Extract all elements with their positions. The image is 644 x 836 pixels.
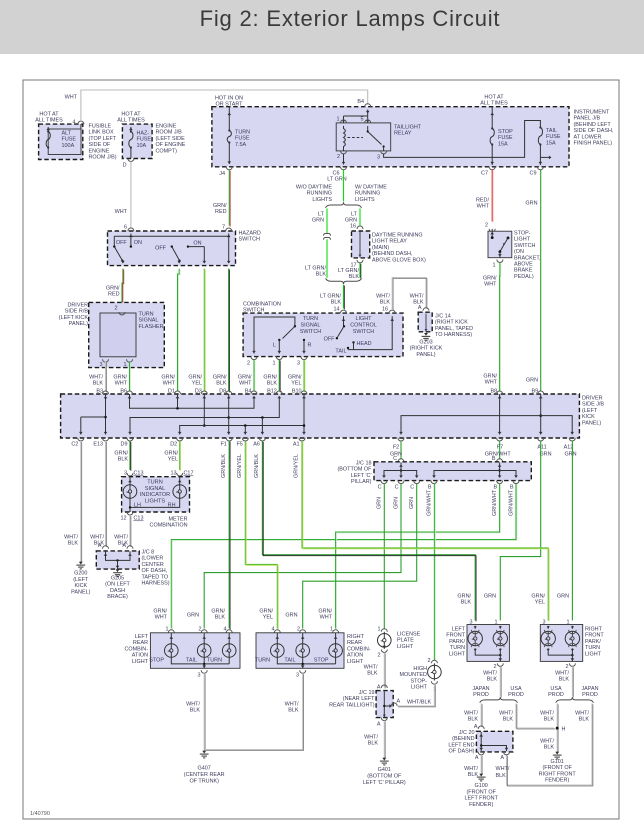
svg-text:USA: USA xyxy=(510,686,522,692)
svg-text:FLASHER: FLASHER xyxy=(139,324,164,330)
relay coil xyxy=(344,126,346,151)
svg-text:BLK: BLK xyxy=(367,671,378,677)
svg-text:YEL: YEL xyxy=(291,381,301,387)
svg-text:STOP: STOP xyxy=(149,658,164,664)
svg-text:TURN: TURN xyxy=(303,316,318,322)
svg-text:OF TRUNK): OF TRUNK) xyxy=(189,778,219,784)
HAZ fuse element xyxy=(129,128,133,131)
pin D connector (haz fuse output) xyxy=(128,159,134,162)
TAIL fuse 15A xyxy=(539,126,541,128)
svg-text:G203: G203 xyxy=(419,340,432,346)
svg-text:PANEL): PANEL) xyxy=(416,352,435,358)
junction connector J/C 19 xyxy=(381,685,387,688)
svg-text:WHT/: WHT/ xyxy=(89,375,103,381)
svg-text:BLK: BLK xyxy=(544,745,555,751)
flasher inner unit xyxy=(100,313,136,357)
svg-text:WHT/: WHT/ xyxy=(496,766,510,772)
svg-text:GRN/: GRN/ xyxy=(213,375,227,381)
svg-text:OF DASH): OF DASH) xyxy=(449,749,475,755)
svg-text:LIGHT: LIGHT xyxy=(132,659,149,665)
svg-text:GRN/: GRN/ xyxy=(153,609,167,615)
svg-text:WHT: WHT xyxy=(163,381,176,387)
right rear internal common xyxy=(277,657,335,664)
svg-text:WHT/: WHT/ xyxy=(575,711,589,717)
svg-text:R: R xyxy=(308,343,312,349)
J/C 18 internal C bus xyxy=(400,463,402,478)
svg-text:A: A xyxy=(377,722,381,728)
svg-text:TO HARNESS): TO HARNESS) xyxy=(435,332,472,338)
svg-text:GRN/BLK: GRN/BLK xyxy=(221,454,227,478)
svg-text:LT GRN/: LT GRN/ xyxy=(320,294,341,300)
svg-text:C17: C17 xyxy=(184,471,194,477)
svg-text:ON: ON xyxy=(193,241,201,247)
svg-text:BLK: BLK xyxy=(93,381,104,387)
svg-text:GRN/: GRN/ xyxy=(238,375,252,381)
title bar xyxy=(0,0,644,54)
svg-text:WHT: WHT xyxy=(115,209,128,215)
long wire GRN/WHT J/C18 B3 to left rear stop xyxy=(171,484,516,629)
svg-text:LIGHT: LIGHT xyxy=(347,659,364,665)
svg-text:J4: J4 xyxy=(219,171,225,177)
svg-text:RIGHT: RIGHT xyxy=(347,634,365,640)
svg-text:HAZ-: HAZ- xyxy=(137,131,150,137)
svg-text:METER: METER xyxy=(168,516,187,522)
svg-text:TAIL: TAIL xyxy=(546,128,557,134)
svg-text:BLK: BLK xyxy=(68,541,79,547)
svg-text:GRN: GRN xyxy=(526,378,538,384)
svg-text:DASH: DASH xyxy=(110,588,125,594)
svg-text:HOT IN ON: HOT IN ON xyxy=(215,96,243,102)
svg-text:(FRONT OF: (FRONT OF xyxy=(542,765,572,771)
svg-text:SIDE R/B: SIDE R/B xyxy=(65,309,89,315)
relay pin3 wire to tail fuse xyxy=(384,121,541,158)
junction connector J/C 8 xyxy=(103,546,109,549)
svg-text:REAR: REAR xyxy=(133,640,148,646)
svg-text:TURN: TURN xyxy=(255,658,270,664)
svg-text:FENDER): FENDER) xyxy=(545,778,569,784)
long wire GRN J/C18 C3 to right rear tail xyxy=(303,484,417,629)
svg-text:INDICATOR: INDICATOR xyxy=(140,492,170,498)
relay pin 3 connector xyxy=(381,151,387,154)
svg-text:16: 16 xyxy=(350,224,356,230)
svg-text:LIGHT: LIGHT xyxy=(411,685,428,691)
svg-text:(LEFT: (LEFT xyxy=(73,577,89,583)
svg-text:FUSE: FUSE xyxy=(62,137,77,143)
svg-text:RIGHT: RIGHT xyxy=(585,627,603,633)
svg-text:ALT: ALT xyxy=(62,131,72,137)
svg-text:GRN: GRN xyxy=(539,452,551,458)
svg-text:DAYTIME RUNNING: DAYTIME RUNNING xyxy=(372,233,423,239)
svg-text:GRN/BLK: GRN/BLK xyxy=(254,454,260,478)
turn signal flasher outer box (driver side R/B) xyxy=(89,302,165,367)
relay pin 1 connector xyxy=(341,120,347,123)
svg-text:WHT/: WHT/ xyxy=(555,671,569,677)
svg-text:LICENSE: LICENSE xyxy=(397,632,421,638)
svg-text:1/40790: 1/40790 xyxy=(30,811,50,817)
svg-text:PROD: PROD xyxy=(582,692,598,698)
wire WHT/BLK right front pin2 to production split xyxy=(571,666,573,696)
svg-text:HEAD: HEAD xyxy=(357,341,372,347)
svg-text:ROOM J/B): ROOM J/B) xyxy=(89,155,117,161)
svg-text:RED: RED xyxy=(215,209,227,215)
svg-text:TURN: TURN xyxy=(585,645,600,651)
svg-text:BLK: BLK xyxy=(503,717,514,723)
daytime running light relay box xyxy=(357,226,363,229)
svg-text:WHT/: WHT/ xyxy=(464,766,478,772)
junction connector J/C 14 xyxy=(423,308,429,311)
svg-text:WHT: WHT xyxy=(65,95,78,101)
long wire GRN/YEL F5 to right rear turn xyxy=(245,441,277,629)
svg-text:LEFT: LEFT xyxy=(452,627,466,633)
svg-text:J/C 19: J/C 19 xyxy=(359,690,375,696)
svg-text:BLK: BLK xyxy=(190,708,201,714)
svg-text:BLK: BLK xyxy=(468,772,479,778)
svg-text:BLK: BLK xyxy=(316,272,327,278)
svg-text:F7: F7 xyxy=(497,445,503,451)
svg-text:AT LOWER: AT LOWER xyxy=(574,134,602,140)
ground G205 xyxy=(117,569,119,571)
long wire GRN J/C18 C1 to license plate light xyxy=(383,484,385,629)
svg-text:PARK/: PARK/ xyxy=(449,639,465,645)
svg-text:(LEFT KICK: (LEFT KICK xyxy=(59,315,89,321)
svg-text:WHT: WHT xyxy=(320,615,333,621)
svg-text:SWITCH: SWITCH xyxy=(514,243,536,249)
svg-text:BLK: BLK xyxy=(544,717,555,723)
J/C 18 internal B bus xyxy=(499,463,501,478)
svg-text:GRN/: GRN/ xyxy=(483,276,497,282)
svg-text:ATION: ATION xyxy=(132,653,148,659)
inline connector on left branch xyxy=(323,234,330,236)
long wire GRN A11 to left front park xyxy=(500,441,540,621)
svg-text:YEL: YEL xyxy=(535,600,545,606)
svg-text:A6: A6 xyxy=(253,442,260,448)
svg-text:C: C xyxy=(395,485,399,491)
wire relay pin2 down to C6 xyxy=(343,154,345,165)
svg-text:G101: G101 xyxy=(551,759,564,765)
long wire GRN/BLK F1 to left rear turn xyxy=(228,441,230,629)
svg-text:WHT/: WHT/ xyxy=(285,702,299,708)
band internal routing: B6-D1-B4 (GRN/WHT turn feed) xyxy=(130,394,255,408)
svg-text:GRN/: GRN/ xyxy=(213,203,227,209)
svg-text:WHT: WHT xyxy=(155,615,168,621)
wire GRN/BLK D9 down to meter pin 3 xyxy=(129,441,131,470)
svg-text:6: 6 xyxy=(124,225,127,231)
svg-text:LIGHT RELAY: LIGHT RELAY xyxy=(372,239,407,245)
svg-text:TAILLIGHT: TAILLIGHT xyxy=(394,125,422,131)
comb switch bottom pin connectors 2 1 3 xyxy=(251,357,257,360)
svg-text:1: 1 xyxy=(377,627,380,633)
svg-text:WHT/: WHT/ xyxy=(499,711,513,717)
svg-text:WHT/: WHT/ xyxy=(540,739,554,745)
svg-text:B8: B8 xyxy=(490,389,497,395)
svg-text:LT: LT xyxy=(351,212,358,218)
svg-text:GRN: GRN xyxy=(525,201,537,207)
svg-text:WHT/: WHT/ xyxy=(364,665,378,671)
meter internal common to pin 12 xyxy=(130,498,180,507)
svg-text:C9: C9 xyxy=(530,171,537,177)
left front bulbs (dual filament) xyxy=(474,626,476,629)
svg-text:BLK: BLK xyxy=(349,274,360,280)
svg-text:STOP-: STOP- xyxy=(410,678,427,684)
svg-text:RUNNING: RUNNING xyxy=(355,191,380,197)
merge brace xyxy=(326,278,362,284)
svg-text:PANEL): PANEL) xyxy=(69,321,88,327)
svg-text:GRN/: GRN/ xyxy=(164,451,178,457)
wire WHT/BLK J/C 19 down to G401 xyxy=(381,718,387,721)
svg-text:B: B xyxy=(493,485,497,491)
svg-text:BLK: BLK xyxy=(487,677,498,683)
svg-text:PROD: PROD xyxy=(548,692,564,698)
wire WHT from haz fuse pin D down to hazard switch pin 6 xyxy=(130,162,132,229)
svg-text:ALL TIMES: ALL TIMES xyxy=(35,118,63,124)
svg-text:(TOP LEFT: (TOP LEFT xyxy=(89,136,117,142)
svg-text:2: 2 xyxy=(485,223,488,229)
svg-text:D2: D2 xyxy=(170,442,177,448)
svg-text:TAIL: TAIL xyxy=(186,658,197,664)
flasher pin 3 connector xyxy=(103,359,109,362)
svg-text:MOUNTED: MOUNTED xyxy=(400,672,428,678)
svg-text:WHT/: WHT/ xyxy=(483,671,497,677)
svg-text:GRN/: GRN/ xyxy=(211,609,225,615)
svg-text:DRIVER: DRIVER xyxy=(582,396,603,402)
connector J4 (turn fuse output) xyxy=(226,167,232,170)
svg-text:3: 3 xyxy=(124,471,127,477)
svg-text:(BEHIND DASH,: (BEHIND DASH, xyxy=(372,251,413,257)
svg-text:10A: 10A xyxy=(137,143,147,149)
svg-text:(LEFT SIDE: (LEFT SIDE xyxy=(156,136,186,142)
svg-text:YEL: YEL xyxy=(263,615,273,621)
svg-text:7: 7 xyxy=(222,225,225,231)
svg-text:B4: B4 xyxy=(245,389,252,395)
svg-text:G100: G100 xyxy=(475,783,488,789)
svg-text:C7: C7 xyxy=(481,171,488,177)
wire WHT/BLK flasher pin3 down to B3 xyxy=(105,362,107,392)
svg-text:BLK: BLK xyxy=(579,717,590,723)
wire GRN F2 down to J/C 18 pin C xyxy=(400,441,402,460)
svg-text:LIGHT: LIGHT xyxy=(355,316,372,322)
svg-text:CENTER: CENTER xyxy=(142,562,164,568)
relay pin 2 connector xyxy=(341,151,347,154)
wire WHT/BLK C2 down to G200 xyxy=(80,441,82,562)
right rear bulbs TURN TAIL STOP xyxy=(271,644,285,658)
svg-text:A: A xyxy=(122,543,126,549)
svg-text:REAR TAILLIGHT): REAR TAILLIGHT) xyxy=(329,702,375,708)
svg-text:LEFT 'C': LEFT 'C' xyxy=(351,473,372,479)
svg-text:1: 1 xyxy=(123,362,126,368)
svg-text:2: 2 xyxy=(114,306,117,312)
svg-text:STOP: STOP xyxy=(314,658,329,664)
svg-text:WHT/: WHT/ xyxy=(186,702,200,708)
svg-text:C: C xyxy=(410,485,414,491)
band internal routing: B9 to A11 with F2/A12 branch (GRN tail feed) xyxy=(540,394,542,435)
band bottom pin connectors xyxy=(78,438,84,441)
svg-text:OFF: OFF xyxy=(324,337,336,343)
svg-text:SIDE OF DASH,: SIDE OF DASH, xyxy=(574,128,614,134)
svg-text:3: 3 xyxy=(197,673,200,679)
svg-text:HARNESS): HARNESS) xyxy=(142,581,170,587)
svg-text:12: 12 xyxy=(120,516,126,522)
svg-text:WHT/: WHT/ xyxy=(90,535,104,541)
svg-text:GRN/YEL: GRN/YEL xyxy=(294,454,300,478)
svg-text:G205: G205 xyxy=(111,576,124,582)
svg-text:A: A xyxy=(418,305,422,311)
wire WHT/BLK left front pin2 to production split xyxy=(499,666,501,696)
svg-text:LIGHTS: LIGHTS xyxy=(355,197,375,203)
svg-text:A1: A1 xyxy=(293,442,300,448)
wire WHT/BLK high mounted stoplight to J/C 19 pin A xyxy=(397,684,434,706)
J/C 18 bottom pin connectors xyxy=(381,481,387,484)
svg-text:H: H xyxy=(562,727,566,733)
svg-text:GRN: GRN xyxy=(285,613,297,619)
svg-text:13: 13 xyxy=(170,471,176,477)
svg-text:(ON: (ON xyxy=(514,249,524,255)
svg-text:RELAY: RELAY xyxy=(394,131,412,137)
svg-text:HAZARD: HAZARD xyxy=(239,231,261,237)
svg-text:BLK: BLK xyxy=(118,457,129,463)
svg-text:BLK: BLK xyxy=(368,741,379,747)
band internal routing: D8-F1 with D9/A6/B12 branch (GRN/BLK) xyxy=(228,394,230,435)
svg-text:BLK: BLK xyxy=(461,600,472,606)
svg-text:SWITCH: SWITCH xyxy=(239,237,261,243)
svg-text:W/ DAYTIME: W/ DAYTIME xyxy=(355,185,387,191)
svg-text:D: D xyxy=(123,163,127,169)
wire LT GRN/BLK relay pin17 down to merge xyxy=(359,263,361,278)
svg-text:STOP: STOP xyxy=(498,129,513,135)
svg-text:ABOVE: ABOVE xyxy=(514,262,533,268)
hazard pin 6 connector xyxy=(128,228,134,231)
wire LT GRN left branch (w/o DRL) xyxy=(326,208,328,233)
hazard pin 7 connector xyxy=(226,228,232,231)
svg-text:B: B xyxy=(510,485,514,491)
svg-text:GRN: GRN xyxy=(484,594,496,600)
svg-text:3: 3 xyxy=(296,673,299,679)
svg-text:LINK BOX: LINK BOX xyxy=(89,130,114,136)
svg-text:B3: B3 xyxy=(96,389,103,395)
svg-text:FINISH PANEL): FINISH PANEL) xyxy=(574,141,613,147)
TURN fuse 7.5A xyxy=(228,107,230,130)
svg-text:FUSE: FUSE xyxy=(546,134,561,140)
svg-text:OF DASH,: OF DASH, xyxy=(142,568,168,574)
svg-text:4: 4 xyxy=(72,120,75,126)
wire LT GRN right branch (w/ DRL) to daytime relay xyxy=(359,208,361,226)
ground G407 xyxy=(203,751,205,753)
svg-text:COMBIN-: COMBIN- xyxy=(347,646,371,652)
svg-text:SWITCH: SWITCH xyxy=(353,329,375,335)
svg-text:WHT: WHT xyxy=(484,282,497,288)
svg-text:WHT/: WHT/ xyxy=(540,711,554,717)
svg-text:16: 16 xyxy=(382,307,388,313)
wire GRN/WHT stop switch to B8 xyxy=(499,263,501,392)
svg-text:INSTRUMENT: INSTRUMENT xyxy=(574,110,610,116)
svg-text:PARK/: PARK/ xyxy=(585,639,601,645)
ALT fuse element xyxy=(46,128,50,131)
svg-text:ATION: ATION xyxy=(347,653,363,659)
svg-text:SIDE OF: SIDE OF xyxy=(89,142,111,148)
hazard right switch (turn feed) xyxy=(171,245,173,247)
svg-text:G200: G200 xyxy=(74,571,87,577)
wire RED/WHT from C7 down to stoplight switch pin 2 xyxy=(491,170,493,222)
svg-text:PROD: PROD xyxy=(508,692,524,698)
connector C9 xyxy=(537,167,543,170)
svg-text:GRN: GRN xyxy=(312,218,324,224)
wire WHT from fusible link pin 4 up and across to B4 xyxy=(81,90,368,121)
svg-text:GRN: GRN xyxy=(564,452,576,458)
branch arrow to other circuits from tail fuse output xyxy=(540,156,549,158)
svg-text:BRACE): BRACE) xyxy=(107,594,128,600)
svg-text:A11: A11 xyxy=(537,445,546,451)
svg-text:F2: F2 xyxy=(393,445,399,451)
svg-text:DRIVER: DRIVER xyxy=(67,303,88,309)
svg-text:WHT: WHT xyxy=(239,381,252,387)
svg-text:TAPED TO: TAPED TO xyxy=(142,574,169,580)
connector C7 xyxy=(489,167,495,170)
svg-text:TURN: TURN xyxy=(147,480,163,486)
svg-text:FRONT: FRONT xyxy=(446,633,465,639)
svg-text:GRN/: GRN/ xyxy=(113,375,127,381)
svg-text:ROOM J/B: ROOM J/B xyxy=(156,130,183,136)
high mounted stoplight bulb xyxy=(431,660,437,663)
svg-text:FUSE: FUSE xyxy=(498,135,513,141)
svg-text:YEL: YEL xyxy=(168,457,178,463)
svg-text:ALL TIMES: ALL TIMES xyxy=(117,118,145,124)
svg-text:BLK: BLK xyxy=(215,615,226,621)
svg-text:1: 1 xyxy=(336,117,339,123)
svg-text:RIGHT FRONT: RIGHT FRONT xyxy=(539,771,577,777)
svg-text:TURN: TURN xyxy=(139,312,154,318)
svg-text:C13: C13 xyxy=(134,516,144,522)
svg-text:GRN/WHT: GRN/WHT xyxy=(427,489,433,516)
svg-text:7.5A: 7.5A xyxy=(235,142,247,148)
long wire GRN J/C18 C2 to left rear tail xyxy=(204,484,401,629)
svg-text:GRN: GRN xyxy=(187,613,199,619)
svg-text:B: B xyxy=(428,485,432,491)
left rear internal common xyxy=(171,657,229,664)
left rear bulbs STOP TAIL TURN xyxy=(165,644,179,658)
svg-text:BLK: BLK xyxy=(288,708,299,714)
svg-text:GRN/: GRN/ xyxy=(106,286,120,292)
svg-text:SIGNAL: SIGNAL xyxy=(139,318,159,324)
fusible link box (ALT fuse) xyxy=(39,124,83,159)
right front bulbs (dual filament) xyxy=(547,626,549,629)
svg-text:GRN/: GRN/ xyxy=(188,375,202,381)
svg-text:3: 3 xyxy=(377,155,380,161)
svg-text:BLK: BLK xyxy=(267,381,278,387)
svg-text:YEL: YEL xyxy=(192,381,202,387)
svg-text:LT: LT xyxy=(318,212,325,218)
svg-text:GRN/: GRN/ xyxy=(259,609,273,615)
svg-text:LIGHT: LIGHT xyxy=(514,237,531,243)
svg-text:LIGHT: LIGHT xyxy=(397,644,414,650)
svg-text:LEFT END: LEFT END xyxy=(448,742,474,748)
svg-text:(ON LEFT: (ON LEFT xyxy=(105,582,130,588)
svg-text:FENDER): FENDER) xyxy=(469,802,493,808)
svg-text:A: A xyxy=(500,755,504,761)
svg-text:1: 1 xyxy=(492,263,495,269)
svg-text:BLK: BLK xyxy=(380,300,391,306)
svg-text:COMBINATION: COMBINATION xyxy=(150,523,188,529)
turn signal indicator bulb RH xyxy=(179,477,181,485)
svg-text:ENGINE: ENGINE xyxy=(89,148,110,154)
wire LT GRN from C6 down to split xyxy=(343,170,345,202)
junction H xyxy=(556,727,559,730)
flasher pin 2 connector xyxy=(119,312,125,315)
svg-text:B6: B6 xyxy=(120,389,127,395)
svg-text:LEFT 'C' PILLAR): LEFT 'C' PILLAR) xyxy=(363,780,406,786)
svg-text:SIGNAL: SIGNAL xyxy=(301,322,321,328)
svg-text:2: 2 xyxy=(247,361,250,367)
svg-text:TAIL: TAIL xyxy=(284,658,295,664)
wire WHT/BLK right japan prod branch long return to J/C 20 xyxy=(507,703,593,785)
